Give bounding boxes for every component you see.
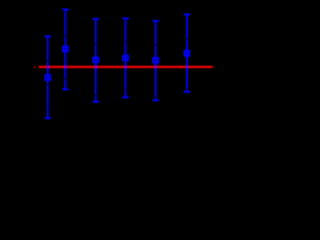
marker 2 center line: [64, 46, 66, 53]
error bar 2 whisker: [62, 10, 68, 90]
marker 3 center line: [95, 57, 97, 64]
marker 6 (open square): [184, 51, 189, 56]
marker 4 center line: [124, 55, 126, 62]
marker 6 center line: [186, 50, 188, 57]
marker 2 (open square): [63, 47, 68, 52]
red fit line dash fragment: [33, 66, 36, 68]
marker 4 (open square): [123, 56, 128, 61]
error bar 3 whisker: [92, 19, 98, 102]
error bar 1 whisker: [44, 36, 50, 118]
red fit line: [39, 66, 213, 68]
marker 1 center line: [47, 74, 49, 81]
dash gaps on whisker lines: [46, 36, 187, 110]
error bar 4 whisker: [122, 18, 128, 97]
marker 5 center line: [154, 57, 156, 64]
marker 1 (open square): [45, 75, 50, 80]
marker 5 (open square): [153, 58, 158, 63]
error bar 6 whisker: [184, 14, 190, 91]
error bar 5 whisker: [152, 21, 158, 100]
marker 3 (open square): [93, 57, 98, 62]
